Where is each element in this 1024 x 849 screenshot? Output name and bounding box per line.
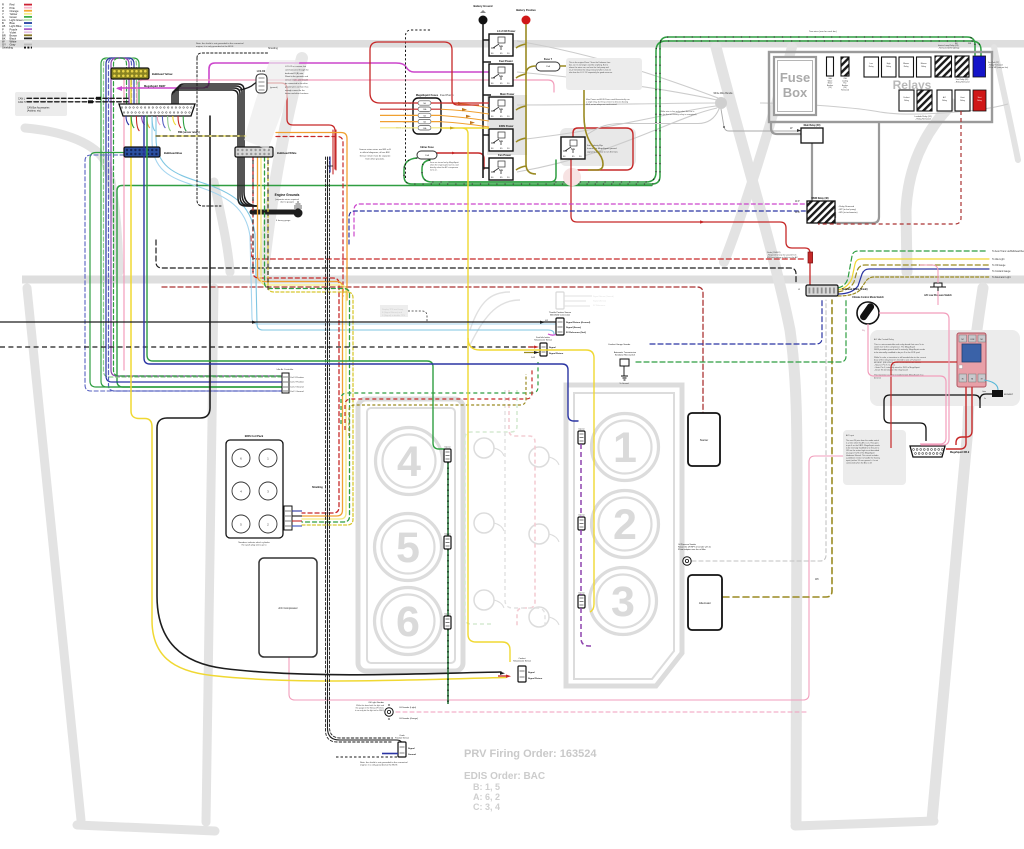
panel relay hatched big 2 <box>955 56 969 77</box>
black wire to TPS <box>0 321 556 323</box>
bulkhead blue connector <box>124 147 160 157</box>
svg-text:87a: 87a <box>499 45 504 48</box>
svg-text:Starter: Starter <box>700 438 708 442</box>
AC low pressure switch symbol <box>930 283 946 291</box>
wire black dashed long <box>156 240 796 284</box>
car windshield pillar middle branch <box>724 47 792 262</box>
wire blue stub below bulkhead white <box>329 157 331 172</box>
panel relay row2 A/C Thermostat (29) <box>937 90 952 111</box>
coil pack connector <box>284 506 292 530</box>
svg-text:Injector: Injector <box>444 613 451 616</box>
cylinder 2 <box>592 491 659 558</box>
svg-text:BW (sensor return): BW (sensor return) <box>178 131 200 134</box>
ghost coil circle (removed) <box>529 524 549 544</box>
ghost coil circle (removed) <box>474 590 494 610</box>
wire green from fan polarity relay down <box>450 160 556 182</box>
svg-text:Relay: Relay <box>960 100 965 102</box>
LC2-O2 connector <box>256 74 267 93</box>
svg-text:4 heavy gauge: 4 heavy gauge <box>276 220 291 222</box>
svg-text:To Auto Trans via Bulkhead Red: To Auto Trans via Bulkhead Red <box>992 250 1024 253</box>
svg-text:LC2-O2: LC2-O2 <box>257 70 266 73</box>
svg-text:Coolant Gauge Sender: Coolant Gauge Sender <box>608 343 631 346</box>
AC input gray panel <box>843 430 906 485</box>
wire black to LC2 <box>240 79 264 90</box>
car rear pillar arc right <box>906 104 952 272</box>
red arrow into air temp <box>528 346 536 348</box>
relay LC-2 O2 power <box>489 34 513 56</box>
ghost coil circle (removed) <box>474 438 494 458</box>
wire shielding vertical right dash <box>330 157 393 738</box>
wire blue to coolant gauge <box>838 269 989 294</box>
svg-text:Bulkhead Blue: Bulkhead Blue <box>164 151 183 155</box>
svg-text:87a: 87a <box>499 169 504 172</box>
fuse 7 pill <box>536 62 560 71</box>
svg-text:Relay: Relay <box>977 100 982 102</box>
starter box <box>688 413 720 466</box>
svg-text:Heat: Heat <box>961 96 965 99</box>
svg-text:Engine Grounds: Engine Grounds <box>275 193 300 197</box>
wire shield dashed drain <box>197 58 221 206</box>
engine block right bank outline <box>566 385 682 686</box>
svg-text:Relay: Relay <box>904 100 909 102</box>
svg-text:Relay: Relay <box>921 66 926 68</box>
svg-text:Relay: Relay <box>886 66 891 68</box>
svg-text:Inline Fuse: Inline Fuse <box>420 145 434 149</box>
car left wheel-arch vertical <box>206 288 214 822</box>
wire red inline fuse to fan relay <box>436 153 484 169</box>
panel relay Low Beam Relay (21) <box>864 57 879 77</box>
oil pressure sender symbol <box>683 557 691 565</box>
wire navy to injector bank right <box>144 116 578 421</box>
extra black dash over coil bundle <box>253 160 268 290</box>
gray box around TPS note <box>380 305 408 317</box>
relay main power <box>489 97 513 119</box>
white wire bundle node <box>715 97 727 109</box>
cylinder 4 <box>376 428 443 495</box>
svg-text:87: 87 <box>981 379 983 381</box>
DB37 pin stub wires <box>126 116 129 125</box>
svg-text:87a: 87a <box>499 75 504 78</box>
wire gray dashed oil gauge <box>692 300 826 561</box>
wire dark green spark daisy left bank <box>447 462 449 704</box>
svg-text:3: 3 <box>611 578 635 626</box>
svg-text:LC-2 O2 Power: LC-2 O2 Power <box>497 29 515 33</box>
fuse-relay panel outline <box>769 52 992 122</box>
svg-text:C: 3, 4: C: 3, 4 <box>473 802 500 812</box>
CAN junction dots <box>96 97 101 100</box>
ground symbol engine grounds <box>294 202 302 208</box>
wire pink dashed oil light <box>396 711 806 713</box>
svg-text:Fuse: Fuse <box>780 70 810 85</box>
wire yellow-black to alternator light <box>838 277 989 296</box>
battery positive terminal <box>522 16 531 25</box>
svg-text:Throttle Position Sensor(Westf: Throttle Position Sensor(Westfield Conne… <box>549 311 571 317</box>
wire red horizontal mid <box>891 362 957 448</box>
car hood vent diagonal right <box>994 47 1018 160</box>
wire red dashed to starter <box>162 287 703 413</box>
svg-text:Gate: Gate <box>982 390 986 393</box>
wire yellow to idle light <box>838 259 989 290</box>
wire black trunk <box>157 116 501 675</box>
wire shield core black <box>328 157 403 748</box>
wire blue dashed coolant gauge <box>650 300 822 344</box>
svg-text:Relay: Relay <box>942 100 947 102</box>
svg-text:Two wires (one for each fan): Two wires (one for each fan) <box>809 30 837 33</box>
car hood crease right <box>214 182 230 272</box>
A/C compressor box <box>259 558 317 657</box>
wire green fan pair outer <box>404 37 975 184</box>
black trunk arrow to coolant sensor <box>500 672 505 675</box>
wire red fan to MSW <box>571 160 810 292</box>
ghost coil circle (removed) <box>474 513 494 533</box>
shield tail dotted at crank sensor <box>336 756 398 758</box>
panel relay row2 hatched <box>917 90 932 111</box>
red arrow on MSW run <box>700 220 705 223</box>
red dashed from start relay down to y224 <box>818 111 961 224</box>
ghost coil circle (removed) <box>529 447 549 467</box>
coil tower 2 <box>259 449 277 467</box>
svg-text:MegaSquirt DB37: MegaSquirt DB37 <box>144 84 166 88</box>
car fender arc left <box>25 128 119 272</box>
svg-text:White Wire Bundle: White Wire Bundle <box>713 92 733 95</box>
wire red dashed long <box>251 236 806 259</box>
svg-text:Signal Return: Signal Return <box>549 352 564 355</box>
gray link panel to main relay <box>771 122 879 223</box>
svg-text:6: 6 <box>396 598 420 646</box>
fuse box inner box <box>774 57 816 115</box>
svg-text:Defrost: Defrost <box>903 96 910 99</box>
svg-text:MegaSquirt Fuses: MegaSquirt Fuses <box>416 93 439 97</box>
blue wire crank ground <box>382 753 398 755</box>
wire red dashed EDIS module run <box>345 368 532 430</box>
svg-text:PRV Firing Order: 163524: PRV Firing Order: 163524 <box>464 748 597 760</box>
wire yellow horizontal to right bank <box>468 338 594 612</box>
svg-text:Numbers indicate which cylinde: Numbers indicate which cylinderthe spark… <box>238 541 270 547</box>
wire coil bundle 5 <box>268 157 353 525</box>
gray note fuse7 <box>566 58 642 90</box>
svg-text:Climate Control Mode Switch: Climate Control Mode Switch <box>852 296 884 299</box>
svg-text:Automatic TransmissionKickdown: Automatic TransmissionKickdown Microswit… <box>614 351 637 357</box>
svg-text:To Oil Gauge: To Oil Gauge <box>992 265 1006 267</box>
svg-text:To Ground: To Ground <box>619 383 628 385</box>
wire CAN L dashed <box>27 97 128 99</box>
climate control mode switch <box>857 302 879 324</box>
svg-text:Relay: Relay <box>869 66 874 68</box>
wire green fan pair inner <box>422 41 981 182</box>
fuse feed wires fan to relays <box>441 103 489 127</box>
wire shielding vertical left dash <box>326 157 393 742</box>
red wire LC2 fuse to relay <box>370 42 489 105</box>
olive wire battery to fuse7 and down <box>526 66 603 170</box>
svg-text:To Alternator Light: To Alternator Light <box>992 276 1011 279</box>
svg-text:Battery Ground: Battery Ground <box>473 4 492 8</box>
wire BW sensor return dash <box>156 135 246 137</box>
engine block left bank outline <box>358 399 463 671</box>
svg-text:87a: 87a <box>499 108 504 111</box>
violet stub TPS <box>548 334 556 335</box>
svg-text:To Idle Light: To Idle Light <box>992 258 1005 261</box>
battery positive brown feed <box>516 24 536 174</box>
svg-text:Injector: Injector <box>444 533 451 536</box>
svg-text:Alternator: Alternator <box>699 601 711 605</box>
relay board white led <box>959 365 963 369</box>
svg-text:W-B: W-B <box>795 211 800 214</box>
wire left bundle 3 <box>106 58 282 382</box>
svg-text:COM: COM <box>970 339 975 341</box>
wire black ground bundle 4 <box>178 84 244 147</box>
svg-text:15A: 15A <box>546 65 550 68</box>
ghost removed wiring pale gray loop <box>505 390 545 626</box>
wire red fan polarity loop <box>573 128 633 170</box>
svg-text:Fuel Power: Fuel Power <box>499 59 513 63</box>
svg-text:Shielding: Shielding <box>312 486 323 489</box>
red arrow to coolant sensor return <box>498 675 508 677</box>
svg-text:MegaSquirt DB-9: MegaSquirt DB-9 <box>950 451 970 454</box>
svg-text:Signal: Signal <box>408 748 415 750</box>
svg-text:Main Relay (30): Main Relay (30) <box>804 125 821 127</box>
svg-text:Bulkhead White: Bulkhead White <box>277 151 297 155</box>
wire black ground bundle 3 <box>176 86 242 147</box>
svg-text:MSW Relay (38): MSW Relay (38) <box>811 198 828 200</box>
svg-text:Lambda Relay (31)- Relay Remov: Lambda Relay (31)- Relay Removed <box>914 116 931 121</box>
svg-text:Relay: Relay <box>904 66 909 68</box>
cylinder 1 <box>592 414 659 481</box>
svg-text:CAN H: CAN H <box>18 101 26 104</box>
white wires from relays to bundle <box>517 41 718 98</box>
car cowl gray band middle <box>22 276 1024 284</box>
svg-text:WK: WK <box>815 578 819 581</box>
wire orange right run <box>276 133 347 301</box>
svg-text:Bulkhead Yellow: Bulkhead Yellow <box>152 72 173 76</box>
svg-text:Oil Light Sender: Oil Light Sender <box>368 701 384 704</box>
wire blue dashed W-B to MSW <box>349 211 806 244</box>
svg-text:Injector: Injector <box>578 428 585 431</box>
wire left bundle 5 <box>111 58 282 376</box>
wire green dashed EDIS module run <box>341 362 538 424</box>
dashed pointer from TPS note <box>408 311 427 322</box>
AC idle control relay gray panel <box>870 330 1020 406</box>
AC relay board pink PCB <box>957 333 986 387</box>
main relay box <box>801 128 823 143</box>
ghost TPS wiring curves <box>470 292 520 345</box>
kickdown microswitch <box>620 359 629 366</box>
wire left bundle 1 <box>101 58 282 387</box>
wire olive to oil gauge <box>838 265 989 292</box>
battery ground black feed to relays <box>483 24 491 178</box>
arrow on red inline fuse wire <box>452 152 456 155</box>
svg-text:- Removed (LED lighting): - Removed (LED lighting) <box>938 47 960 50</box>
wire left bundle 4 <box>109 58 283 391</box>
wire blue dashed loop from bulkhead blue <box>85 155 282 391</box>
DB37 connector <box>119 104 195 116</box>
wire red relay board to DB9 <box>946 387 972 449</box>
wire purple dashed spark right bank <box>581 444 591 646</box>
wire BW sensor return yellow <box>156 135 246 137</box>
svg-text:1: 1 <box>613 424 637 472</box>
wire red right vertical pair <box>333 130 336 174</box>
fuse EDIS and Coils 5 <box>418 126 431 130</box>
svg-text:While this does both the light: While this does both the light andthe ga… <box>355 704 384 712</box>
wire shield dashed top loop <box>197 53 268 58</box>
svg-text:Blower: Blower <box>921 62 927 65</box>
wire pink switch to relay board <box>868 313 949 445</box>
svg-text:A/C Compressor: A/C Compressor <box>278 606 297 610</box>
cylinder 5 <box>375 514 442 581</box>
white wire to main relay <box>721 109 801 131</box>
svg-text:Box: Box <box>783 85 808 100</box>
start inhibit red box <box>973 90 986 111</box>
injector cyl2 <box>578 517 585 530</box>
panel relay row2 Defrost Relay (32) <box>899 90 914 111</box>
tick on blue stub <box>327 165 333 167</box>
svg-text:Fast Idle IntakeTemperature Se: Fast Idle IntakeTemperature Sensor <box>534 336 552 342</box>
olive arrow into air temp return <box>524 351 540 354</box>
svg-text:W: W <box>798 289 800 291</box>
MOSFET component <box>992 390 1003 397</box>
injector cyl6 <box>444 616 451 629</box>
bulkhead white connector center <box>235 147 273 157</box>
fuse LC-2 O2 1 <box>418 101 431 105</box>
air temp sensor connector <box>540 343 547 356</box>
svg-text:Start: Start <box>978 96 982 99</box>
svg-text:To Coolant Gauge: To Coolant Gauge <box>992 270 1011 273</box>
LC2-O2 gray smudge <box>244 60 300 150</box>
ghost removed wiring pale pink loop <box>509 390 535 628</box>
svg-text:Battery Positive: Battery Positive <box>516 8 536 12</box>
CAN gray panel <box>15 92 67 116</box>
wire CAN H dashed <box>27 101 128 103</box>
svg-text:Fuse 7: Fuse 7 <box>544 57 553 61</box>
wire white fan polarity <box>588 109 719 134</box>
car bottom sill left <box>77 825 215 831</box>
panel relay hatched big 1 <box>935 56 952 77</box>
panel relay High Beam Relay (24) <box>882 57 897 77</box>
svg-text:While wire is live only when t: While wire is live only when the car iso… <box>660 110 697 116</box>
svg-text:Blower: Blower <box>903 62 909 65</box>
fuse Injectors 4 <box>418 119 431 123</box>
wire yellow down left bank <box>468 324 510 662</box>
svg-text:10A: 10A <box>425 154 429 157</box>
megasquirt DB9 connector <box>910 446 945 457</box>
relay EDIS power <box>489 129 513 151</box>
ghost TPS connector removed <box>556 292 564 309</box>
coolant temp sensor connector <box>518 666 526 682</box>
wire olive dashed alternator <box>723 300 832 597</box>
wire coil bundle 4 <box>265 157 350 522</box>
svg-text:4: 4 <box>397 438 421 486</box>
svg-text:Oil Sender (Light): Oil Sender (Light) <box>399 706 416 709</box>
svg-text:Shielding: Shielding <box>2 46 14 50</box>
wire pink long <box>137 80 554 104</box>
svg-text:Signal: Signal <box>528 672 535 674</box>
arrow magenta into bundle <box>116 86 122 91</box>
injector cyl1 <box>578 431 585 444</box>
gray shade behind fan polarity relay <box>560 128 636 166</box>
fan pak blue box <box>973 56 986 77</box>
wire black mosfet to DB9 <box>884 394 992 441</box>
TPS connector <box>556 318 564 335</box>
svg-text:High: High <box>887 63 891 65</box>
wire coil bundle 1 <box>253 157 339 513</box>
svg-text:W-P: W-P <box>795 200 800 203</box>
wire pink low pressure to top <box>920 265 938 305</box>
breaker slim 1 <box>827 57 834 76</box>
svg-text:Injector: Injector <box>444 446 451 449</box>
car left body diagonal <box>27 288 81 820</box>
yellow EDIS fuse wire long <box>441 128 489 324</box>
battery ground terminal <box>479 16 488 25</box>
wire green long left <box>117 186 652 388</box>
relay fuel power <box>489 64 513 86</box>
car windshield pillar middle <box>716 47 797 822</box>
wire coil bundle 3 <box>261 157 346 519</box>
megasquirt fuses box <box>413 98 441 134</box>
wire light blue from DB37 <box>152 116 556 324</box>
svg-text:Oil Sender (Gauge): Oil Sender (Gauge) <box>399 717 418 720</box>
car rear quarter diagonal right <box>932 288 983 820</box>
panel relay row2 Heat Acces Relay (25) <box>955 90 970 111</box>
injector cyl3 <box>578 595 585 608</box>
wire cyan from DB37 <box>156 116 554 334</box>
wire red from LC2 <box>267 83 335 169</box>
wire magenta fuel pump <box>118 63 489 88</box>
coil tower 5 <box>232 515 250 533</box>
dotted shield line left of relays <box>406 30 432 178</box>
relay fan power <box>489 158 513 180</box>
wire coil bundle 2 <box>258 157 343 516</box>
gray shade behind main/EDIS relays <box>487 95 527 155</box>
svg-text:86: 86 <box>971 379 973 381</box>
svg-text:Signal: Signal <box>549 347 556 349</box>
coil feed connector 4-pin <box>282 373 289 393</box>
inline fuse pill <box>417 151 437 159</box>
coil tower 6 <box>259 515 277 533</box>
breaker slim 2 hatched <box>841 57 849 76</box>
bulkhead yellow connector <box>111 68 149 79</box>
wire left bundle 6 <box>114 58 283 376</box>
svg-text:EDIS Coil Pack: EDIS Coil Pack <box>245 434 264 438</box>
wire pink AC compressor loop <box>289 456 845 700</box>
coil tower 1 <box>232 449 250 467</box>
svg-text:EDIS Order: BAC: EDIS Order: BAC <box>464 771 545 782</box>
svg-text:5: 5 <box>396 524 420 572</box>
svg-text:5v: 5v <box>984 398 986 400</box>
cylinder 3 <box>590 568 657 635</box>
engine grounds heavy cable <box>252 210 296 215</box>
wire black ground bundle 1 <box>172 90 238 147</box>
ghost coil circle (removed) <box>529 607 549 627</box>
wire green dashed to auto trans <box>838 251 988 288</box>
wire purple dashed W-P to MSW <box>354 204 806 236</box>
black bundle through bulkhead white down to engine grounds <box>238 157 258 206</box>
svg-text:2: 2 <box>613 501 637 549</box>
coil pack pin stubs colored <box>292 510 302 512</box>
svg-text:EDIS Power: EDIS Power <box>499 124 514 128</box>
svg-text:This is the original Fuse 7 fr: This is the original Fuse 7 from the Del… <box>569 61 613 74</box>
pale red blob near fan polarity <box>563 168 581 186</box>
svg-text:(ground): (ground) <box>270 87 278 89</box>
green pair black dots <box>404 37 975 184</box>
svg-text:A: 6, 2: A: 6, 2 <box>473 792 500 802</box>
panel relay Blower Motor Speed 1 (23) <box>899 57 914 77</box>
svg-text:Idle Air Controller: Idle Air Controller <box>277 368 294 371</box>
bulkhead white small connector <box>806 285 838 296</box>
fuse MegaSquirt 2 <box>418 107 431 111</box>
wire green dashed kickdown <box>636 300 846 362</box>
EDIS coil pack box <box>226 440 283 538</box>
diode 1N4001 <box>808 252 813 263</box>
svg-text:Fan Power: Fan Power <box>498 153 511 157</box>
